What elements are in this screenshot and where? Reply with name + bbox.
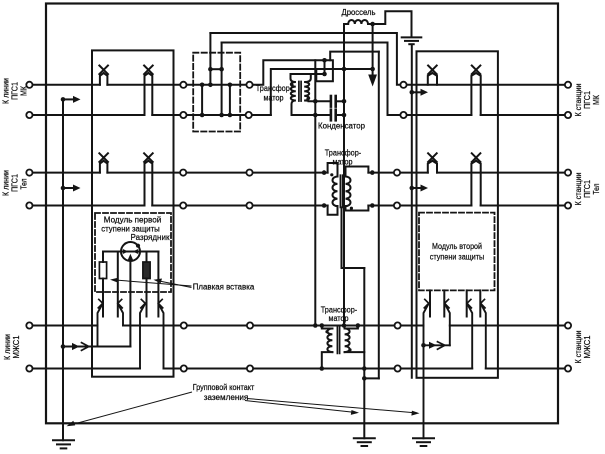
spark gap S4 (pair3-b series) [158,299,163,368]
junction dot choke column x C1 [342,99,347,104]
contact X1 (pair1 wire a, left module) [99,66,108,85]
terminal circle line pair1-b [26,112,32,118]
junction dot bus pair3 [61,344,66,349]
junction dot A x C2 [313,113,318,118]
arrow arrester left electrode [123,249,129,254]
junction dots jumper module [200,67,232,117]
wire T2 left-top lead [328,163,338,177]
junction dot bus pair1 [61,97,66,102]
svg-text:матор: матор [264,94,285,103]
junction dot T2 pair2-a left [322,170,327,175]
node circle pair1-b after left module [180,112,186,118]
junction dot right bus pair1 [410,90,415,95]
svg-text:ПГС1: ПГС1 [583,91,592,109]
junction dot riser top [322,58,327,63]
junction dot right pair3 ground column [421,343,426,348]
terminal circle station pair1-a [565,82,571,88]
wire pair2 upper right segment [368,172,427,174]
spark gap S1 (pair3-a series, to ground) [98,299,103,346]
wire capacitor C1 left lead [309,100,330,102]
junction dot riser bottom [322,72,327,77]
wire vertical link A [314,60,316,325]
junction dot choke right [370,22,375,27]
svg-text:К станции: К станции [574,331,583,364]
capacitor C2 [330,110,333,121]
pointer line to ground bottom-left [69,392,193,426]
wire pair3 upper left segment [32,325,97,327]
junction dot T3 pair3-a right [356,323,361,328]
junction dot P2 x choke-left column [342,67,347,72]
wire ground link to arrester column [63,346,130,348]
polarity dot T1 primary [290,83,293,86]
wire pair3 lower right segment [486,368,565,370]
wire fuse F1 bottom lead / S1 top electrode [102,279,104,317]
wire cross jumper in dashed module [210,68,221,70]
node circle pair3-a right [395,322,401,328]
node circle pair2-b mid [246,202,252,208]
node circle pair3-a mid [247,322,253,328]
junction dot T3 pair3-a left [320,323,325,328]
svg-text:заземления: заземления [204,393,249,402]
terminal circle line pair1-a [26,82,32,88]
wire pair1 lower left segment [32,114,144,116]
wire pair1 upper left segment [32,84,100,86]
wire T1 left-bottom lead to capacitor C2 line [292,101,296,116]
svg-text:МК: МК [20,86,29,96]
capacitor C1 [330,96,333,107]
spark gap S1r (pair3-a series, to ground) [424,299,429,438]
junction dot middle column x pair3-b [362,366,367,371]
wire overhead link b2 [222,43,401,116]
wire pair3 lower mid segment [164,368,473,370]
fuse F1 [99,262,106,279]
svg-text:МЖС1: МЖС1 [583,336,592,359]
svg-text:ПГС1: ПГС1 [11,174,20,192]
ground symbol top [402,36,422,38]
wire S4r top electrode column [479,290,481,316]
wire pair1 lower right segment2 [481,114,565,116]
wire pair3 upper mid segment [123,325,424,327]
wire pair2 upper right segment2 [437,172,565,174]
wire arrester center column to ground link [129,259,131,347]
wire fuse F2 top lead [146,252,148,263]
svg-text:К линии: К линии [2,78,11,104]
node circle pair1-a after left module [180,82,186,88]
ground bus right [411,45,413,378]
terminal circle station pair2-a [565,170,571,176]
fuse F2 [143,262,150,279]
wire S2r top electrode column [443,290,445,316]
wire T2 right-top lead [346,167,369,177]
dot arrester gas marker [136,244,140,248]
wire T1 left-top lead [291,74,296,82]
contact X7 (pair2 wire a, right module) [428,153,437,172]
junction dot A x C1 [313,99,318,104]
wire arrester electrode line [103,251,158,253]
right protection unit box [417,51,498,378]
wire T3 right-top lead [345,326,358,329]
junction dot T2 pair2-b right [370,203,375,208]
junction dot T2 pair2-b left [322,203,327,208]
polarity dot T2 secondary [350,207,353,210]
wire T1 right-top lead [304,74,311,82]
wire pair3 lower left segment [32,368,140,370]
arrow double chevron right pair3 [429,342,445,350]
wire T3 left-bottom lead [322,352,333,368]
junction dot bus pair2 [61,186,66,191]
node circle pair1-b before riser [246,112,252,118]
wire fuse F1 top lead [102,252,104,263]
enclosure outer box [46,4,558,424]
svg-text:матор: матор [329,314,350,323]
svg-text:МК: МК [592,95,601,105]
wire pair2 lower right segment [368,205,471,207]
first-stage protection module dashed box [95,213,171,292]
terminal circle line pair2-b [26,202,32,208]
svg-text:ПГС1: ПГС1 [583,180,592,198]
contact X6 (pair1 wire b, right module) [471,66,480,116]
svg-text:К линии: К линии [2,170,11,196]
wire choke to top ground [373,11,412,37]
node circle pair3-a after left module [181,322,187,328]
left protection unit box [92,50,174,376]
svg-text:К станции: К станции [574,84,583,117]
svg-text:Конденсатор: Конденсатор [318,122,366,131]
terminal circle station pair1-b [565,112,571,118]
junction dot right bus pair2 [410,186,415,191]
polarity dot T1 secondary [306,97,309,100]
spark gap S2r (pair3-a series, to ground tie) [445,299,450,345]
pointer line to fuse F1 [112,280,192,286]
node circle pair1-a before riser [246,82,252,88]
transformer T1 (line transformer, pair1) [290,74,310,115]
contact X5 (pair1 wire a, right module) [428,66,437,85]
wire gamma bottom link [364,377,379,379]
terminal circle line pair3-b [26,365,32,371]
wire overhead link b1 [210,33,400,85]
svg-text:К станции: К станции [574,173,583,206]
wire T3 right-bottom lead [345,351,365,353]
wire choke left column [343,24,345,326]
ground symbol bottom-right [413,438,434,446]
wire capacitor C2 right lead [337,114,344,116]
wire S1r top electrode column [429,290,431,316]
wire pair1-a jump over transformer (up-and-over link) [253,60,333,85]
polarity dot T2 primary [330,173,333,176]
ground symbol bottom-left [53,440,74,448]
wire capacitor C1 right lead [337,100,344,102]
svg-text:Тел: Тел [592,183,601,194]
svg-text:МЖС1: МЖС1 [12,336,21,359]
wire pair2 lower left segment [32,205,144,207]
contact X2 (pair1 wire b, left module) [144,66,153,116]
choke L1 (Drossel) [344,20,373,24]
junction dot P2 x choke-right column [370,67,375,72]
wire S3r top electrode column [466,290,468,316]
wire riser from pair1-b to overhead link b2 [221,43,223,116]
wire pair1 upper right stub to terminal [558,84,565,86]
node circle pair2-a after left module [180,170,186,176]
spark gap S4r (pair3-b series) [481,299,486,368]
contact X4 (pair2 wire b, left module) [144,153,153,205]
wire capacitor C2 left lead [292,114,330,116]
pointer line to ground bottom-right [247,399,418,414]
jumper vertical link j1 [201,85,203,115]
wire riser from pair1-a to overhead link b1 [209,33,211,85]
svg-text:Трансфор-: Трансфор- [256,84,293,93]
wire T2 left-bottom lead [328,206,338,215]
arrester (gas discharge tube) circle [121,242,140,261]
junction dot choke column x C2 [342,113,347,118]
arrow right bus to pair1 [412,91,422,93]
second-stage protection module dashed box [419,213,495,291]
wire S2 top electrode column [117,252,119,317]
wire gamma link top [330,52,379,61]
node circle pair2-b after left module [180,202,186,208]
wire riser link between H-a and P2 levels [324,60,326,74]
arrow double chevron on ground link [72,343,80,350]
wire Q transformer1 top links [291,73,325,75]
arrow right bus to pair2 [412,187,422,189]
transformer T2 (isolating transformer, pair2) [322,163,375,446]
svg-text:Дроссель: Дроссель [342,8,376,17]
spark gap S3 (pair3-b series) [140,299,145,368]
svg-text:Плавкая вставка: Плавкая вставка [193,283,255,292]
terminal circle line pair2-a [26,170,32,176]
wire T1 right-bottom lead to capacitor C1 line [304,100,308,103]
arrow down on choke tap [368,75,377,87]
node circle pair1-a right [400,82,406,88]
wire ground tie right module [424,344,450,346]
wire pair2 lower right segment2 [481,205,565,207]
wire choke tap down arrow [372,24,374,76]
arrow bus to pair2 [63,187,74,189]
terminal circle station pair3-a [565,322,571,328]
wire pair1 upper mid segment [107,84,252,86]
contact X8 (pair2 wire b, right module) [471,153,480,205]
pointer line to ground bottom-middle [245,401,357,413]
node circle pair2-b right [394,202,400,208]
polarity dot T3 secondary [348,348,351,351]
wire pair1 lower right segment [406,114,471,116]
wire pair1-b riser link P2 [271,69,373,115]
wire T2 screen tap down [342,207,365,268]
junction dot A bottom at pair3-a [313,323,318,328]
arrow bus to pair1 [63,98,74,100]
junction dot T3 pair3-b left [320,366,325,371]
svg-text:Разрядник: Разрядник [131,233,171,242]
node circle pair3-b after left module [181,365,187,371]
wire pair2 upper left segment [32,172,100,174]
jumper vertical link j2 [229,85,231,115]
terminal circle station pair3-b [565,365,571,371]
node circle pair2-a right [394,170,400,176]
terminal circle station pair2-b [565,202,571,208]
arrow arrester right electrode [133,249,139,254]
wire pair2 upper mid segment [107,172,327,174]
junction dot choke left column at pair3-a [342,323,347,328]
wire gamma vertical [378,52,380,379]
svg-text:ПГС1: ПГС1 [11,82,20,100]
svg-text:Модуль первой: Модуль первой [104,216,162,225]
junction dot gamma bottom link [362,376,367,381]
jumper module dashed box [193,53,240,132]
svg-text:матор: матор [333,158,354,167]
arrow arrester bottom electrode [128,254,133,260]
wire pair1 upper right segment [406,84,558,86]
wire S4 top electrode column [157,252,159,317]
svg-text:Тел: Тел [20,178,29,189]
pointer line to fuse F2 [156,280,192,287]
spark gap S2 (pair3-a series) [118,299,123,325]
terminal circle line pair3-a [26,322,32,328]
svg-text:К линии: К линии [3,334,12,360]
node circle pair2-a mid [246,170,252,176]
node circle pair3-b mid [247,365,253,371]
wire T2 right-bottom lead [346,206,369,211]
ground bus left (earthing conductor) [62,99,64,440]
wire T3 left-top lead [322,326,333,329]
svg-text:ступени защиты: ступени защиты [430,253,485,262]
wire pair2 lower mid segment [152,205,327,207]
ground symbol bottom-middle [354,437,375,439]
wire ground column middle [363,268,365,438]
wire pair1 lower mid segment [152,114,270,116]
svg-text:Модуль второй: Модуль второй [432,242,482,251]
svg-text:Трансфор-: Трансфор- [325,149,362,158]
polarity dot T3 primary [325,330,328,333]
node circle pair3-b right [395,365,401,371]
spark gap S3r (pair3-b series) [467,299,472,368]
wire pair3 upper right segment [450,325,565,327]
svg-text:Групповой контакт: Групповой контакт [193,383,255,392]
wire fuse F2 bottom lead / S3 top electrode [146,279,148,317]
contact X3 (pair2 wire a, left module) [99,153,108,172]
transformer T3 (isolating transformer, pair3) [320,323,365,371]
junction dot T2 pair2-a right [370,170,375,175]
node circle pair1-b right [400,112,406,118]
